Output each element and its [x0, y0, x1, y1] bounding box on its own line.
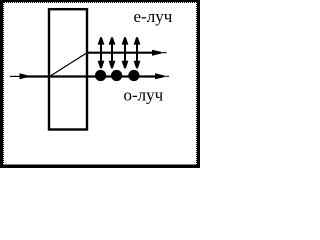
svg-text:е-луч: е-луч: [134, 7, 173, 26]
svg-text:о-луч: о-луч: [124, 85, 164, 104]
